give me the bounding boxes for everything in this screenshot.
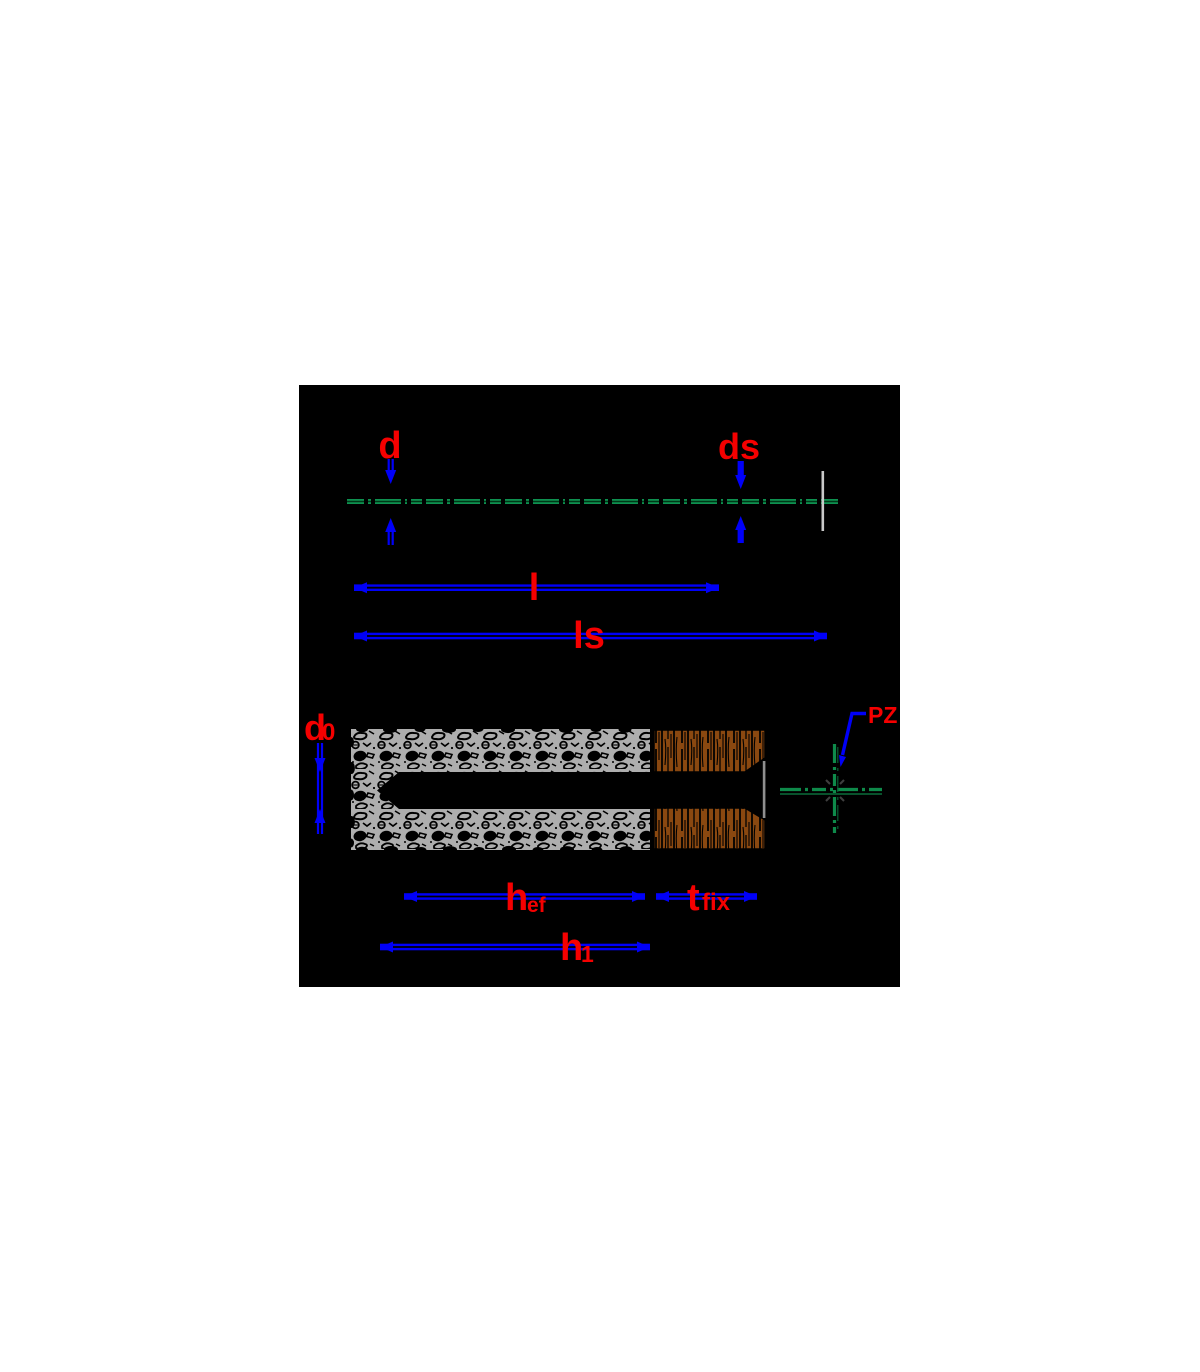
screw head end face line (side view) [822,471,825,531]
concrete edge scallops [348,726,633,853]
screw head face line (section) [763,761,766,818]
drilled hole (black) [377,772,650,809]
svg-text:l: l [529,567,540,609]
svg-text:fix: fix [702,889,731,916]
svg-text:ds: ds [718,426,760,467]
dimension l [354,582,719,593]
svg-text:0: 0 [322,719,335,746]
dimension hef [404,891,645,902]
concrete block (stippled) [351,729,650,850]
dimension tfix [656,891,757,902]
svg-text:ls: ls [573,615,605,657]
dimension arrow d lower [385,518,396,545]
dimension ls [354,631,827,642]
dimension arrow ds upper [735,461,746,489]
dimension h1 [380,942,650,953]
svg-text:h: h [560,927,583,969]
svg-text:t: t [687,877,700,919]
dimension arrow d upper [385,459,396,484]
leader PZ (blue) [839,714,866,768]
svg-text:PZ: PZ [868,702,897,728]
pozidriv recess marks [826,780,844,801]
crosshair (front view of screw head, green dash-dot) [780,744,882,833]
svg-text:1: 1 [581,941,594,967]
svg-text:h: h [505,877,528,919]
dimension arrow ds lower [735,516,746,543]
wood fixture upper part [654,730,765,772]
svg-text:ef: ef [527,894,547,917]
wood fixture lower part [654,808,765,849]
centerline (screw axis, green dash-dot) [347,499,839,504]
dimension d0 [315,743,326,834]
